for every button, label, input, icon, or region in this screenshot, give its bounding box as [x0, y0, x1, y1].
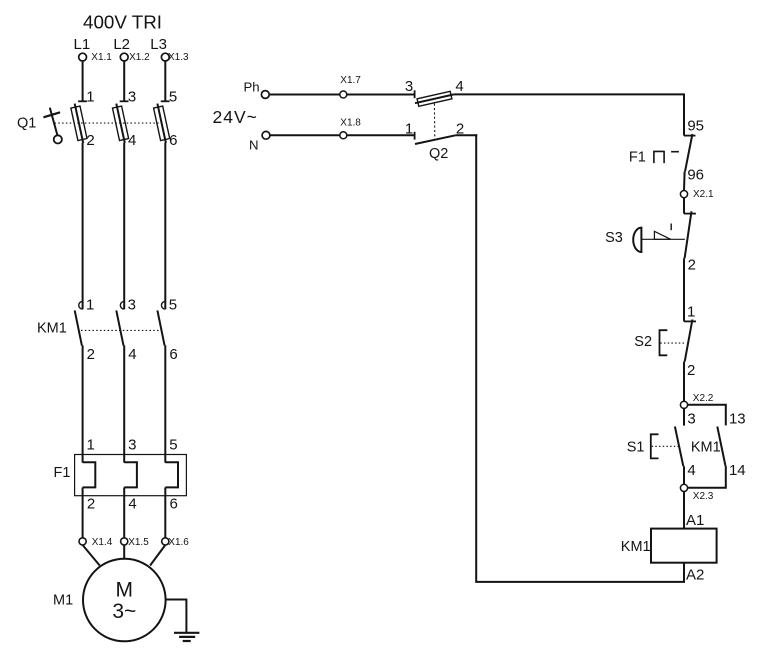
wire X2.1 to S3 pin 1: [683, 198, 685, 214]
terminal X2.2: [680, 401, 687, 408]
S3 position dash: [670, 224, 672, 231]
svg-text:X1.2: X1.2: [129, 52, 150, 63]
S2 NC contact tick: [684, 320, 696, 322]
svg-text:1: 1: [86, 89, 94, 106]
wire L2 to Q1 pin 3: [123, 61, 125, 101]
wire KM1 pin 4 to F1 pin 3: [123, 345, 125, 462]
F1 thermal trip dash: [671, 151, 679, 153]
F1 NC contact blade: [685, 134, 692, 172]
KM1 aux contact blade: [717, 427, 725, 467]
terminal X1.8: [340, 132, 347, 139]
svg-text:4: 4: [128, 346, 136, 363]
svg-text:F1: F1: [54, 465, 71, 481]
terminal Ph: [261, 91, 269, 99]
svg-text:5: 5: [169, 296, 177, 313]
svg-text:13: 13: [729, 411, 746, 428]
svg-text:KM1: KM1: [691, 440, 721, 456]
wire S3 pin 2 to S2 pin 1: [683, 258, 685, 321]
KM1 pole 2 blade: [116, 310, 123, 345]
wire S1 pin 4 to X2.3: [683, 466, 685, 484]
Q2 pin 1 terminal tick: [414, 132, 416, 140]
svg-text:400V TRI: 400V TRI: [83, 12, 162, 33]
terminal X1.1: [79, 53, 87, 61]
breaker Q1 pole 3 blade: [157, 104, 166, 143]
svg-text:Ph: Ph: [244, 80, 260, 95]
F1 thermal trip symbol: [654, 151, 664, 163]
F1 heater element pole 3: [165, 462, 178, 487]
wire KM1 A2 return to Q2 pin 2: [476, 134, 684, 582]
wire KM1 pin 14 to X2.3: [688, 466, 726, 488]
terminal X1.5: [121, 538, 128, 545]
svg-text:5: 5: [169, 89, 177, 106]
svg-text:N: N: [249, 138, 259, 153]
svg-text:3: 3: [128, 436, 136, 453]
svg-text:3: 3: [405, 78, 413, 95]
svg-text:6: 6: [169, 132, 177, 149]
F1 heater element pole 1: [83, 462, 96, 487]
wire N to X1.8: [270, 134, 340, 136]
svg-text:Q1: Q1: [17, 115, 36, 131]
Q2 upper pole blade: [415, 94, 454, 103]
svg-text:2: 2: [87, 495, 95, 512]
svg-text:X1.1: X1.1: [91, 52, 112, 63]
F1 heater element pole 2: [124, 462, 137, 487]
breaker Q1 pole 1 blade: [75, 104, 84, 143]
wire Q1 pin 4 to KM1 pin 3: [123, 143, 125, 309]
svg-text:2: 2: [688, 256, 696, 273]
svg-text:X2.2: X2.2: [693, 393, 714, 404]
svg-text:2: 2: [87, 346, 95, 363]
Q2 lower pole blade: [415, 135, 455, 144]
Q1 linkage dotted line: [55, 122, 161, 124]
Q1 handle crossbar: [44, 112, 61, 117]
svg-text:KM1: KM1: [621, 539, 651, 555]
KM1 pole 1 blade: [75, 310, 82, 345]
wire X2.2 to S1 pin 3: [683, 408, 685, 425]
svg-text:X1.5: X1.5: [128, 537, 149, 548]
S3 NC contact blade: [685, 211, 692, 258]
KM1 pin 1 fixed hook: [79, 301, 83, 309]
Q2 linkage dashed line: [433, 104, 435, 140]
svg-text:1: 1: [687, 304, 695, 321]
S3 latch triangle: [654, 231, 670, 239]
wire Q2 pin 2 to node: [455, 134, 477, 136]
terminal X2.1: [680, 191, 687, 198]
wire X2.3 to KM1 coil A1: [683, 492, 685, 529]
svg-text:L2: L2: [113, 36, 130, 53]
svg-text:24V~: 24V~: [213, 107, 258, 127]
svg-text:6: 6: [170, 495, 178, 512]
svg-text:2: 2: [86, 132, 94, 149]
Q1 handle stem: [50, 108, 58, 136]
motor M1 body: [83, 559, 166, 642]
terminal X1.3: [161, 53, 169, 61]
svg-text:6: 6: [169, 346, 177, 363]
svg-text:X1.4: X1.4: [92, 537, 113, 548]
Q2 upper pole fuse body: [417, 91, 452, 106]
breaker Q1 pole 2 blade: [116, 104, 125, 143]
svg-text:1: 1: [87, 436, 95, 453]
S3 actuator link: [641, 238, 685, 240]
breaker Q1 pole 2 fuse body: [113, 106, 129, 140]
thermal relay F1 box: [75, 455, 187, 496]
wire Q1 pin 6 to KM1 pin 5: [164, 143, 166, 309]
svg-text:L3: L3: [150, 36, 167, 53]
svg-text:X1.3: X1.3: [168, 52, 189, 63]
terminal N: [262, 131, 270, 139]
terminal X1.7: [340, 91, 347, 98]
S2 NC contact blade: [685, 320, 693, 362]
wire X1.8 to Q2 pin 1: [347, 134, 415, 136]
svg-text:X1.8: X1.8: [340, 118, 361, 129]
S1 actuator dotted link: [652, 445, 679, 447]
breaker Q1 pole 1 fuse body: [71, 106, 87, 140]
S1 pushbutton bracket: [651, 434, 659, 458]
KM1 pole 3 blade: [157, 310, 164, 345]
svg-text:Q2: Q2: [429, 146, 448, 162]
wire Ph to X1.7: [269, 94, 340, 96]
svg-text:96: 96: [687, 167, 704, 184]
wire motor to ground: [166, 600, 187, 633]
svg-text:1: 1: [405, 120, 413, 137]
svg-text:1: 1: [86, 296, 94, 313]
S3 NC contact tick: [684, 213, 696, 215]
wire X1.7 to Q2 pin 3: [347, 94, 415, 96]
Q1 pin 1 terminal tick: [78, 100, 87, 102]
wire F1 96 to X2.1: [683, 172, 686, 191]
svg-text:4: 4: [455, 78, 463, 95]
svg-text:X1.7: X1.7: [340, 75, 361, 86]
terminal X1.2: [120, 53, 128, 61]
wire Q2 pin 4 to F1 pin 95: [454, 94, 684, 135]
S1 NO contact blade: [675, 427, 683, 467]
svg-text:95: 95: [687, 117, 704, 134]
wire X1.4 to motor: [83, 545, 100, 566]
svg-text:F1: F1: [629, 149, 646, 165]
svg-text:5: 5: [169, 436, 177, 453]
terminal X2.3: [680, 484, 687, 491]
KM1 linkage dotted line: [81, 329, 162, 331]
breaker Q1 pole 3 fuse body: [154, 106, 170, 140]
svg-text:X2.3: X2.3: [693, 491, 714, 502]
wire L1 to Q1 pin 1: [82, 61, 84, 101]
svg-text:4: 4: [687, 462, 695, 479]
svg-text:S1: S1: [627, 440, 645, 456]
Q1 handle circle: [54, 135, 62, 143]
svg-text:L1: L1: [74, 36, 91, 53]
Q1 pin 5 terminal tick: [161, 100, 170, 102]
wire KM1 pin 2 to F1 pin 1: [82, 345, 84, 462]
wire X1.6 to motor: [150, 545, 165, 566]
wire F1 pin 6 to X1.6: [164, 487, 166, 538]
svg-text:3~: 3~: [112, 600, 136, 623]
svg-text:X1.6: X1.6: [168, 537, 189, 548]
contactor KM1 coil: [651, 529, 717, 563]
S3 mushroom head: [633, 228, 641, 252]
svg-text:4: 4: [128, 132, 136, 149]
svg-text:M1: M1: [53, 593, 73, 609]
S2 pushbutton bracket: [660, 330, 668, 355]
wire Q1 pin 2 to KM1 pin 1: [82, 143, 84, 309]
svg-text:S2: S2: [634, 334, 652, 350]
svg-text:X2.1: X2.1: [693, 189, 714, 200]
wire X2.2 branch to KM1 pin 13: [688, 405, 726, 426]
F1 NC contact tick: [684, 135, 696, 137]
wire KM1 pin 6 to F1 pin 5: [164, 345, 166, 462]
svg-text:3: 3: [128, 89, 136, 106]
wire L3 to Q1 pin 5: [164, 61, 166, 101]
KM1 pin 5 fixed hook: [161, 301, 165, 309]
svg-text:KM1: KM1: [37, 321, 67, 337]
svg-text:A2: A2: [686, 566, 704, 583]
svg-text:4: 4: [128, 495, 136, 512]
svg-text:3: 3: [128, 296, 136, 313]
wire S2 pin 2 to X2.2: [683, 362, 685, 402]
svg-text:2: 2: [687, 362, 695, 379]
wire F1 pin 2 to X1.4: [82, 487, 84, 538]
svg-text:A1: A1: [686, 512, 704, 529]
ground symbol: [174, 632, 199, 634]
KM1 pin 3 fixed hook: [120, 301, 124, 309]
svg-text:S3: S3: [605, 230, 623, 246]
wire X1.5 to motor: [123, 545, 125, 559]
terminal X1.6: [162, 538, 169, 545]
svg-text:14: 14: [729, 462, 746, 479]
terminal X1.4: [79, 538, 86, 545]
svg-text:3: 3: [687, 411, 695, 428]
Q1 pin 3 terminal tick: [120, 100, 129, 102]
S2 actuator dotted link: [660, 342, 686, 344]
wire F1 pin 4 to X1.5: [123, 487, 125, 538]
svg-text:M: M: [116, 578, 134, 601]
Q2 pin 3 terminal tick: [414, 90, 416, 98]
